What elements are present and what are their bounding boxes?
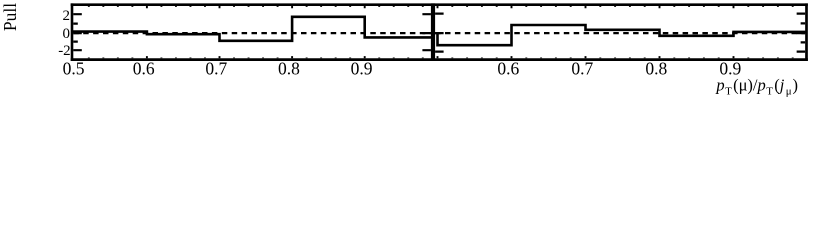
- svg-text:0.6: 0.6: [497, 58, 519, 78]
- svg-text:0.8: 0.8: [645, 58, 667, 78]
- svg-text:Pull: Pull: [0, 3, 20, 31]
- svg-text:2: 2: [63, 8, 71, 24]
- pull histogram panel1: [72, 17, 433, 41]
- dashed zero line panel1: [73, 32, 431, 34]
- svg-text:0.9: 0.9: [351, 58, 373, 78]
- pull histogram panel2: [438, 25, 807, 45]
- svg-text:0.7: 0.7: [571, 58, 593, 78]
- svg-text:0.5: 0.5: [63, 58, 85, 78]
- y ticks panel2 left: [435, 14, 444, 52]
- svg-text:0.8: 0.8: [278, 58, 300, 78]
- x ticks panel1: [89, 6, 423, 58]
- top frame: [71, 3, 808, 6]
- right border: [805, 3, 808, 61]
- middle shared border: [431, 3, 435, 61]
- x ticks panel2: [438, 6, 793, 58]
- y ticks panel1 right: [422, 14, 431, 50]
- svg-text:0.7: 0.7: [205, 58, 227, 78]
- svg-text:-2: -2: [58, 43, 71, 59]
- left y-axis: [71, 3, 74, 61]
- y ticks panel1 left: [73, 14, 82, 50]
- y ticks panel2 right: [797, 14, 806, 52]
- dashed zero line panel2: [435, 32, 805, 34]
- svg-text:0.6: 0.6: [133, 58, 155, 78]
- bottom axis: [71, 58, 808, 61]
- svg-text:0: 0: [63, 26, 71, 42]
